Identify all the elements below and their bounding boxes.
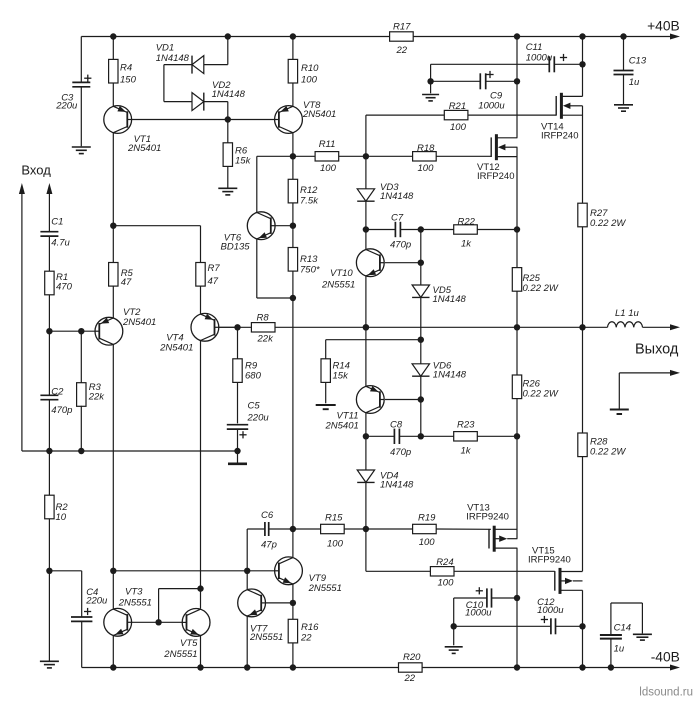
svg-text:15k: 15k: [235, 156, 252, 167]
svg-text:100: 100: [327, 538, 344, 549]
svg-text:C5: C5: [248, 401, 261, 412]
svg-text:100: 100: [301, 75, 318, 86]
svg-text:Вход: Вход: [21, 163, 51, 178]
svg-text:0.22 2W: 0.22 2W: [590, 447, 626, 458]
svg-text:1u: 1u: [614, 644, 625, 655]
svg-text:R18: R18: [417, 143, 435, 154]
svg-text:1k: 1k: [461, 238, 472, 249]
svg-text:IRFP240: IRFP240: [477, 171, 515, 182]
svg-text:680: 680: [245, 371, 262, 382]
svg-text:1000u: 1000u: [526, 53, 553, 64]
svg-text:C1: C1: [51, 217, 63, 228]
svg-text:470p: 470p: [51, 405, 72, 416]
svg-text:IRFP9240: IRFP9240: [528, 555, 571, 566]
svg-text:R17: R17: [393, 22, 411, 33]
svg-text:470p: 470p: [390, 240, 411, 251]
svg-text:1N4148: 1N4148: [433, 370, 467, 381]
svg-text:1N4148: 1N4148: [380, 191, 414, 202]
svg-text:R19: R19: [418, 513, 436, 524]
svg-text:R20: R20: [403, 652, 421, 663]
svg-text:100: 100: [438, 578, 455, 589]
svg-text:0.22 2W: 0.22 2W: [523, 389, 559, 400]
svg-text:22: 22: [396, 45, 408, 56]
svg-text:0.22 2W: 0.22 2W: [523, 283, 559, 294]
svg-text:470p: 470p: [390, 447, 411, 458]
svg-text:-40В: -40В: [651, 649, 680, 664]
svg-text:7.5k: 7.5k: [300, 196, 319, 207]
svg-text:1N4148: 1N4148: [433, 294, 467, 305]
svg-text:R16: R16: [301, 622, 319, 633]
svg-text:C8: C8: [390, 420, 403, 431]
svg-text:C2: C2: [51, 387, 64, 398]
svg-text:R21: R21: [449, 101, 466, 112]
svg-text:L1 1u: L1 1u: [615, 308, 639, 319]
svg-text:1000u: 1000u: [537, 605, 564, 616]
svg-text:100: 100: [419, 537, 436, 548]
svg-text:100: 100: [418, 163, 435, 174]
svg-text:22k: 22k: [257, 334, 275, 345]
svg-text:220u: 220u: [55, 101, 78, 112]
svg-text:R13: R13: [300, 254, 318, 265]
svg-text:220u: 220u: [247, 413, 270, 424]
svg-text:C13: C13: [629, 56, 647, 67]
svg-text:100: 100: [450, 122, 467, 133]
svg-text:2N5401: 2N5401: [127, 143, 161, 154]
svg-text:2N5401: 2N5401: [159, 343, 193, 354]
svg-text:1000u: 1000u: [478, 101, 505, 112]
svg-text:2N5401: 2N5401: [325, 421, 359, 432]
svg-text:R12: R12: [300, 185, 318, 196]
svg-text:1N4148: 1N4148: [156, 53, 190, 64]
svg-text:R7: R7: [208, 263, 221, 274]
svg-text:IRFP9240: IRFP9240: [466, 511, 509, 522]
svg-text:1k: 1k: [461, 446, 472, 457]
svg-text:1N4148: 1N4148: [380, 480, 414, 491]
svg-text:22: 22: [300, 633, 312, 644]
svg-text:C6: C6: [261, 510, 274, 521]
svg-text:2N5551: 2N5551: [118, 598, 152, 609]
svg-text:2N5401: 2N5401: [302, 109, 336, 120]
svg-text:R10: R10: [301, 63, 319, 74]
svg-text:0.22 2W: 0.22 2W: [590, 218, 626, 229]
svg-text:1u: 1u: [629, 77, 640, 88]
svg-text:1000u: 1000u: [465, 608, 492, 619]
svg-text:Выход: Выход: [635, 342, 679, 358]
svg-text:2N5551: 2N5551: [163, 649, 197, 660]
svg-text:VT5: VT5: [180, 638, 198, 649]
svg-text:C11: C11: [526, 42, 543, 53]
svg-text:10: 10: [56, 512, 67, 523]
svg-text:R23: R23: [457, 420, 475, 431]
svg-text:150: 150: [120, 75, 137, 86]
svg-text:C14: C14: [614, 623, 631, 634]
svg-text:4.7u: 4.7u: [51, 238, 70, 249]
svg-text:R11: R11: [319, 139, 336, 150]
svg-text:IRFP240: IRFP240: [541, 131, 579, 142]
svg-text:2N5401: 2N5401: [122, 317, 156, 328]
svg-text:VT3: VT3: [125, 587, 143, 598]
svg-text:BD135: BD135: [221, 242, 251, 253]
svg-text:22k: 22k: [88, 392, 106, 403]
svg-text:22: 22: [404, 673, 416, 684]
svg-text:47: 47: [208, 276, 219, 287]
svg-text:47: 47: [121, 277, 132, 288]
svg-text:470: 470: [56, 282, 73, 293]
svg-text:ldsound.ru: ldsound.ru: [639, 687, 693, 699]
svg-text:2N5551: 2N5551: [249, 632, 283, 643]
svg-text:R8: R8: [257, 313, 270, 324]
svg-text:2N5551: 2N5551: [321, 280, 355, 291]
svg-text:R24: R24: [436, 557, 453, 568]
svg-text:VT10: VT10: [330, 268, 353, 279]
svg-text:47p: 47p: [261, 540, 277, 551]
svg-text:1N4148: 1N4148: [212, 89, 246, 100]
svg-text:15k: 15k: [333, 371, 350, 382]
svg-text:220u: 220u: [85, 596, 108, 607]
svg-text:R15: R15: [325, 513, 343, 524]
svg-text:750*: 750*: [300, 265, 320, 276]
svg-text:C7: C7: [391, 213, 404, 224]
svg-text:VD1: VD1: [156, 43, 174, 54]
svg-text:R22: R22: [458, 217, 476, 228]
svg-text:+40В: +40В: [647, 19, 680, 34]
svg-text:2N5551: 2N5551: [308, 583, 342, 594]
svg-text:100: 100: [320, 163, 337, 174]
svg-text:R4: R4: [120, 63, 132, 74]
